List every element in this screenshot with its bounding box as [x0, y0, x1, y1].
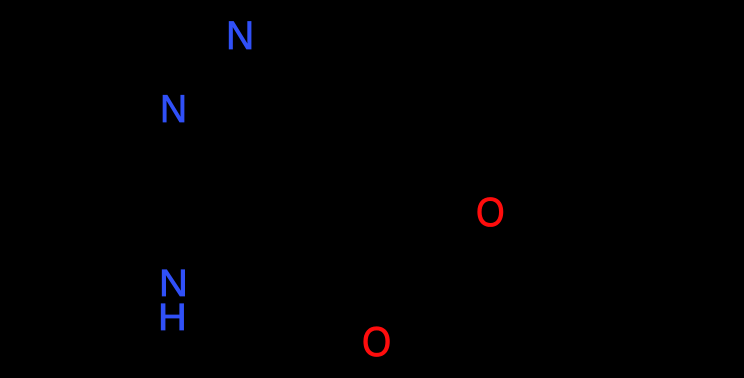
bond C3a-N4 (ring bond to NH) — [187, 228, 252, 271]
atom O1 (ester oxygen, red "O") — [476, 192, 505, 233]
bond N4-C5 (link from NH down-left) — [95, 295, 160, 306]
atom N2 (bridge ring nitrogen, blue "N") — [160, 91, 187, 130]
bond C3-C9 (to ester carbonyl carbon) — [364, 157, 372, 262]
bond O1-C10 (O to isopropyl CH) — [506, 150, 580, 202]
bond C9-O1 (ester C-O single bond) — [382, 222, 474, 258]
atom H of N4-H (blue "H" below the N) — [158, 299, 187, 337]
bond N2-C7 (bond to left substituent) — [57, 77, 158, 99]
bond N1-N2 (ring N-N single bond) — [180, 43, 234, 98]
bond N1=C3 (C=N double bond, outer line) — [252, 47, 362, 150]
bond C10-C11 (methyl arm up-right) — [580, 60, 712, 150]
atom N1 (top ring nitrogen, blue "N") — [226, 17, 254, 57]
bond C7-C8 (left substituent arm) — [5, 77, 57, 140]
bond C10-C12 (methyl arm down-right) — [580, 150, 705, 255]
atom N4 (ring N-H nitrogen, blue "N") — [159, 265, 188, 303]
bond C5-C6 (lower-left arm, upper line) — [8, 190, 95, 218]
bond C9=O2 (carbonyl double bond, left line) — [365, 270, 370, 320]
atom O2 (carbonyl oxygen, red "O") — [362, 321, 391, 363]
bond C9=O2 (carbonyl double bond, right line) — [379, 270, 384, 320]
bond C5-C5' (left connector) — [93, 190, 98, 306]
bond C3-C3a (ring bond) — [258, 150, 362, 224]
bond C5-C6' (lower-left arm, lower line) — [8, 306, 95, 348]
bond N1=C3 (C=N double bond, inner line) — [243, 60, 341, 148]
bond N4-N2 (vertical ring bond) — [171, 129, 176, 264]
